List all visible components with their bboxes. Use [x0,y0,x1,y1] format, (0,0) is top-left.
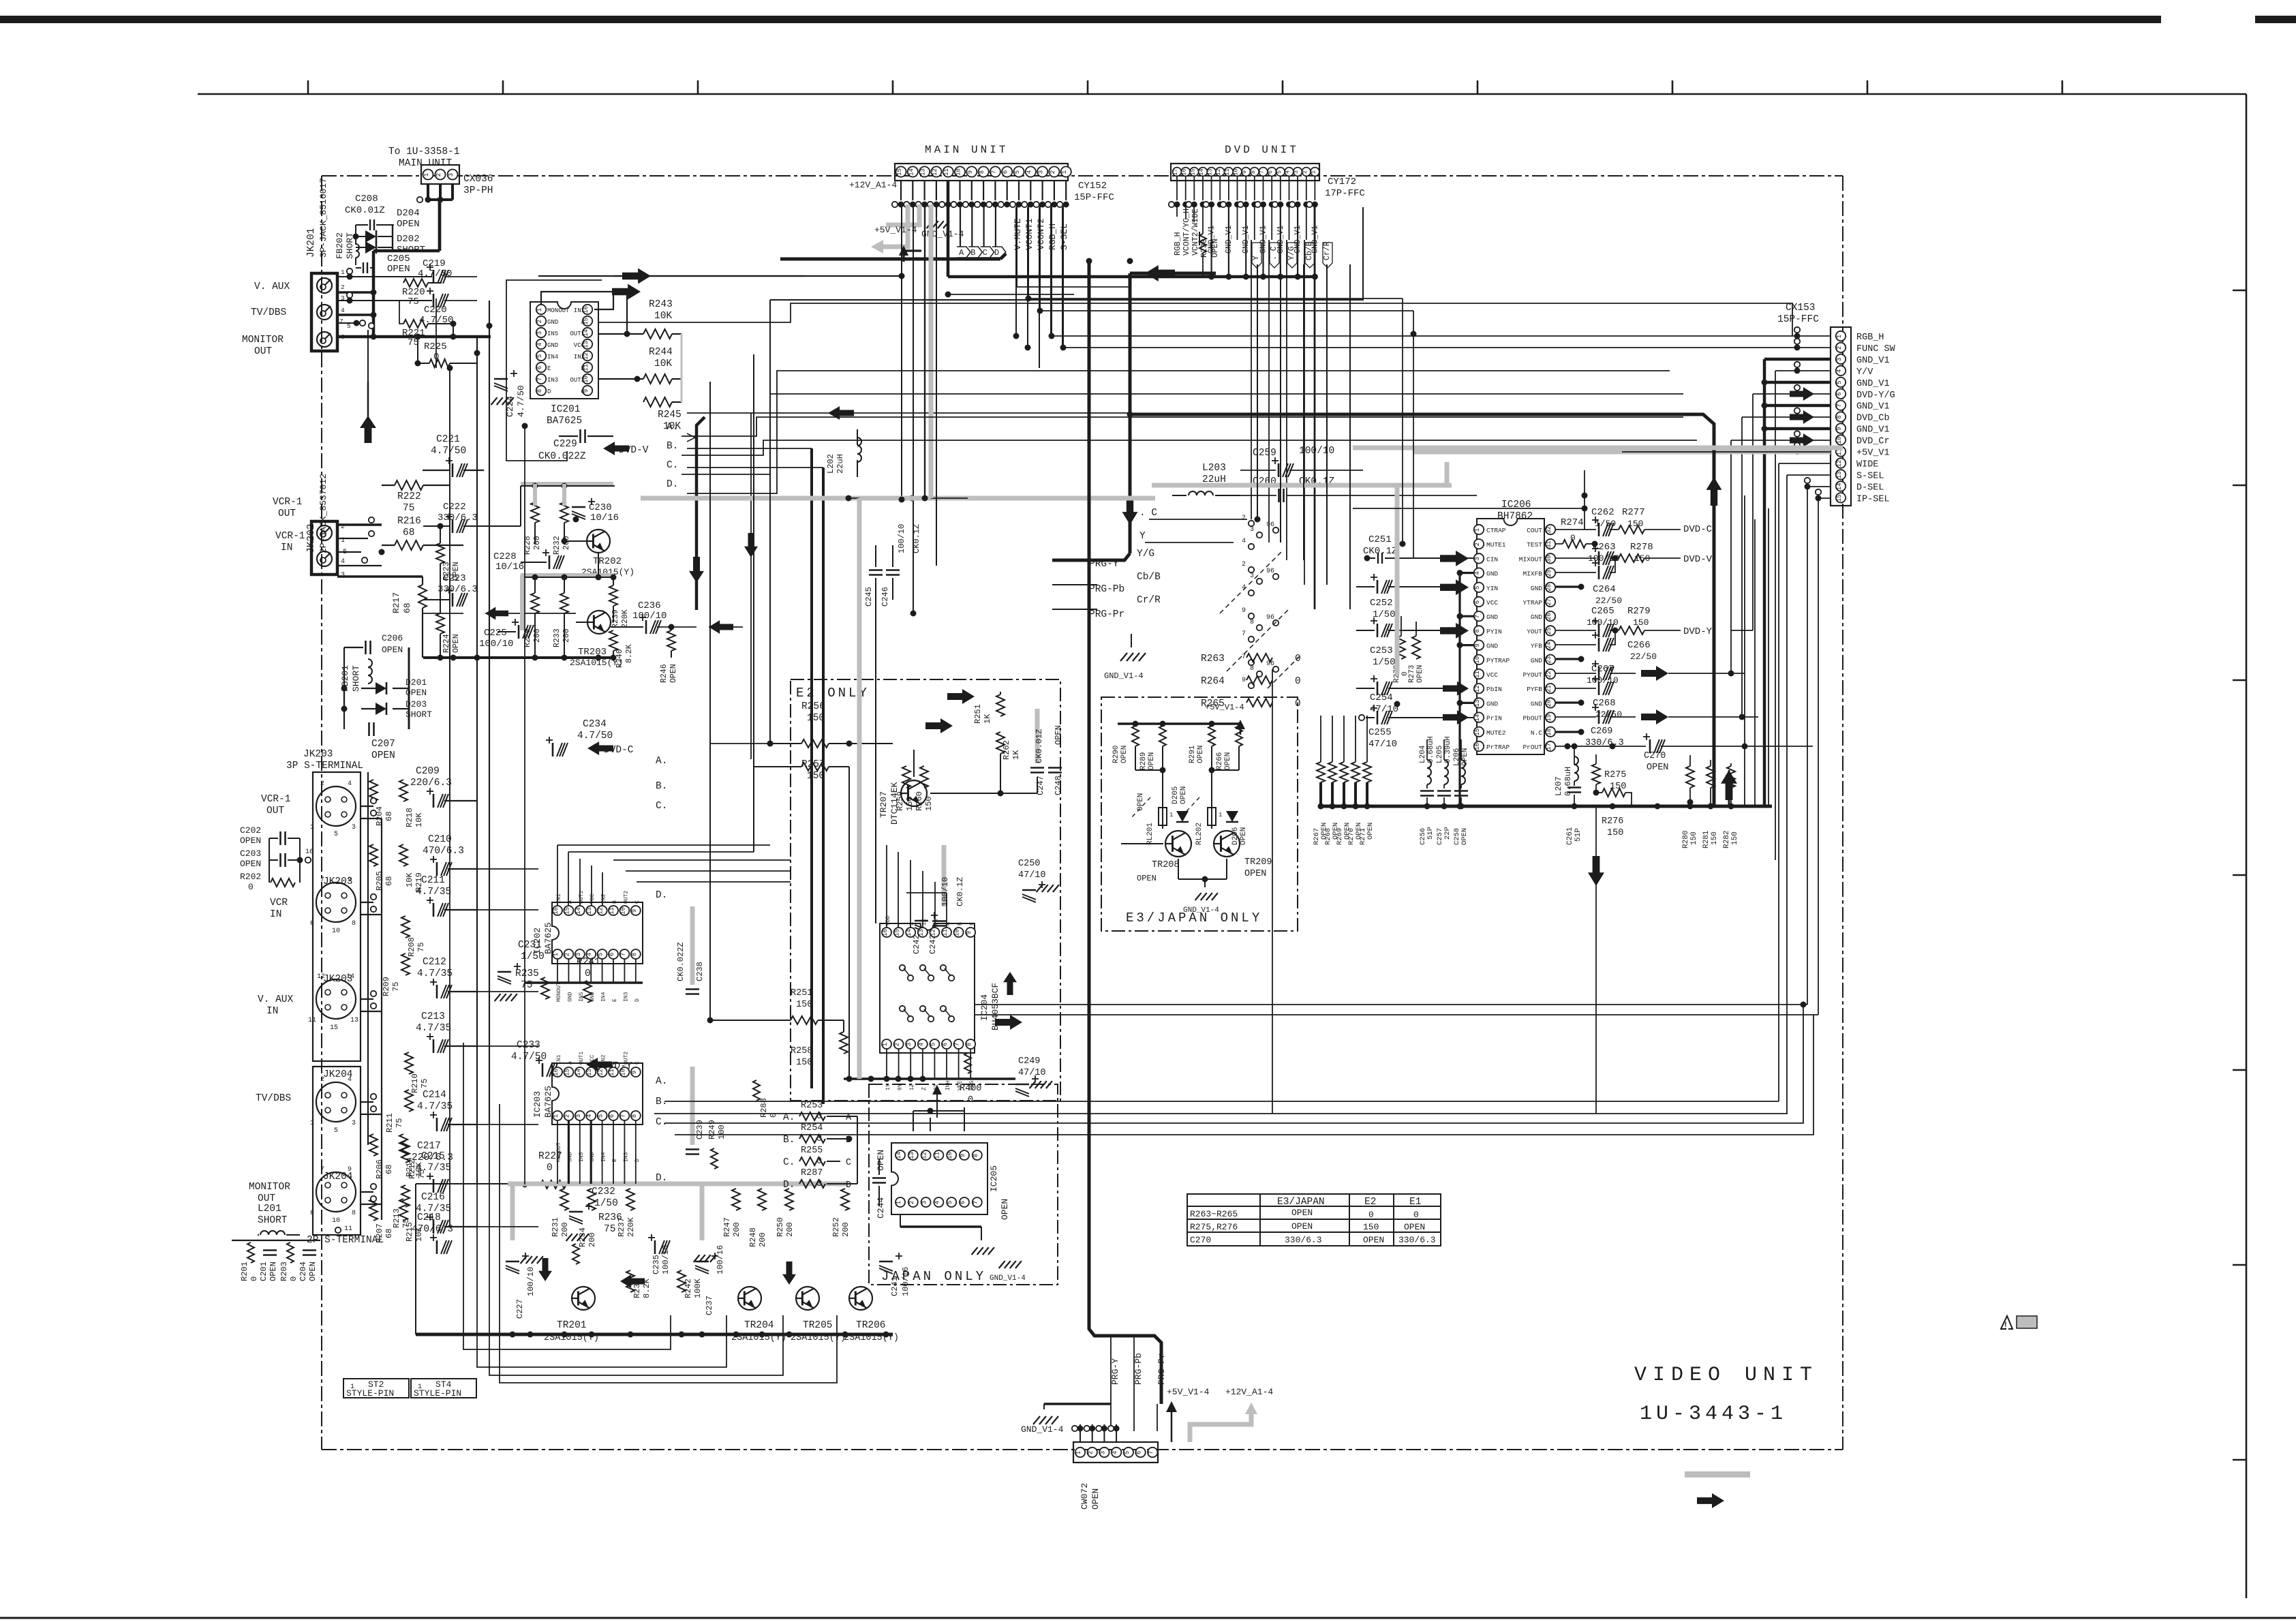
svg-text:100K: 100K [693,1278,703,1298]
svg-text:5: 5 [1124,1451,1131,1454]
capacitor C241 100/16 [879,1261,893,1263]
svg-text:15: 15 [330,1024,338,1032]
svg-text:L207: L207 [1554,776,1563,796]
svg-text:12: 12 [1474,685,1481,692]
svg-text:75: 75 [408,296,419,307]
svg-text:WIDE: WIDE [1856,460,1878,470]
svg-text:COUT: COUT [1527,527,1542,534]
gray trace L203 to IC206 [1152,483,1452,488]
svg-text:+5V_V1-4: +5V_V1-4 [1205,703,1244,712]
svg-text:4: 4 [536,343,543,346]
svg-text:OPEN: OPEN [1054,725,1063,745]
svg-text:IN1: IN1 [556,1054,562,1065]
wire IC202 feeds [444,800,557,801]
svg-text:R275: R275 [1604,770,1626,780]
transistor TR205 2SA1015(Y) [796,1287,819,1310]
svg-text:3: 3 [352,824,356,831]
svg-text:9: 9 [967,170,974,174]
svg-text:10/16: 10/16 [495,562,524,572]
svg-text:TV/DBS: TV/DBS [256,1093,291,1104]
op-amp IC202 BA7625 body [552,902,643,964]
relay RL202 OPEN [1208,808,1216,825]
resistor R233 200 [560,593,568,613]
svg-text:B.: B. [667,441,678,452]
svg-text:L201: L201 [258,1204,281,1214]
wire FUNC SW long horizontal [1065,347,1831,348]
svg-text:GND: GND [1486,700,1498,707]
svg-text:C216: C216 [421,1192,445,1203]
top black bar right segment [2255,16,2296,23]
svg-text:DVD-C: DVD-C [1683,524,1712,535]
svg-text:VCR-1: VCR-1 [273,497,303,508]
svg-text:TEST: TEST [1527,541,1542,549]
wire WIDE pin12 [1779,463,1831,464]
switch dashed arrows [1220,552,1281,613]
gray arrow +12V bottom [1190,1409,1251,1442]
svg-text:200: 200 [732,1222,741,1237]
svg-text:C261: C261 [1566,827,1574,845]
IC202 bottom pins [553,949,562,959]
wire E2 horizontals to right [710,743,770,744]
svg-text:1: 1 [423,173,430,177]
svg-text:R213: R213 [392,1208,401,1228]
gray +12V trace arrow [882,204,908,247]
warning gray box [2017,1316,2037,1328]
jack VCR-1 IN [317,551,332,566]
svg-text:VCC: VCC [590,1054,596,1065]
svg-text:E: E [547,365,551,372]
svg-text:C251: C251 [1368,534,1392,545]
svg-text:C202: C202 [240,825,261,836]
svg-text:200: 200 [785,1222,795,1237]
svg-text:150: 150 [905,796,915,811]
wire R221 to bus [453,324,454,337]
IC206 left pins [1474,525,1484,534]
capacitor PbOUT ecap arrow [1598,710,1600,724]
svg-text:8.2K: 8.2K [642,1278,652,1298]
svg-text:C242: C242 [912,934,921,954]
wire nested horizontals to right [664,498,1799,1123]
transistor TR208 [1165,831,1191,857]
svg-text:100/10: 100/10 [479,639,513,649]
svg-text:100/10: 100/10 [1587,675,1619,686]
svg-text:13: 13 [918,929,925,936]
svg-text:R277: R277 [1622,507,1645,518]
svg-text:R201: R201 [240,1261,249,1281]
svg-text:R281: R281 [1702,830,1711,848]
svg-text:7: 7 [339,318,343,325]
svg-text:A.: A. [667,422,678,433]
svg-text:N.C: N.C [1531,729,1542,737]
svg-text:2: 2 [1836,346,1843,350]
svg-text:13: 13 [1207,168,1214,175]
svg-text:11: 11 [609,1069,615,1076]
svg-text:OUT1: OUT1 [570,331,585,337]
svg-text:+12V_A1-4: +12V_A1-4 [849,180,897,190]
svg-text:8: 8 [1250,170,1257,174]
svg-text:R234: R234 [578,1227,587,1247]
svg-text:8: 8 [352,920,356,928]
connector ST2 STYLE-PIN [343,1379,409,1398]
svg-text:8: 8 [979,170,985,174]
svg-text:100/10: 100/10 [897,524,906,553]
svg-text:B: B [581,365,585,372]
IC204 bottom pins [882,1039,891,1049]
svg-text:11: 11 [1224,168,1231,175]
svg-text:2: 2 [320,780,324,788]
svg-text:2: 2 [536,320,543,323]
wire CX036 stems [427,184,429,200]
svg-text:Z: Z [921,1087,928,1090]
svg-text:C.: C. [783,1157,795,1168]
wire center verticals bundle [769,300,771,744]
svg-text:R217: R217 [391,592,401,613]
transistor TR202 2SA1015(Y) [587,530,610,553]
svg-text:16: 16 [1474,743,1481,750]
svg-text:68: 68 [384,1165,394,1174]
svg-text:10K: 10K [414,1162,424,1177]
thick bus A-D flags [780,258,1000,261]
svg-text:2: 2 [1242,561,1246,568]
svg-text:11: 11 [609,907,615,915]
svg-text:C206: C206 [382,633,403,643]
svg-text:TR205: TR205 [803,1320,833,1331]
svg-text:R255: R255 [801,1146,823,1156]
svg-text:1: 1 [341,269,345,276]
ground CY152 pin12 [936,204,937,217]
svg-text:B.: B. [656,1097,667,1107]
wire PrOUT net C270 OPEN [1556,746,1646,747]
svg-text:3: 3 [1038,170,1045,174]
svg-text:SHORT: SHORT [345,232,355,259]
svg-text:C204: C204 [299,1261,308,1281]
svg-text:16: 16 [553,907,560,915]
wire E2 box verticals [906,746,907,767]
capacitor C261 51P [1567,786,1581,789]
wire vertical 1867 [1272,669,1273,1114]
relay RL201 [1159,808,1167,825]
svg-text:30: 30 [1546,555,1552,562]
svg-text:R203: R203 [279,1261,289,1281]
svg-text:PbIN: PbIN [1486,686,1502,693]
svg-text:IN4: IN4 [601,992,607,1002]
svg-text:4: 4 [1285,170,1291,174]
svg-text:1: 1 [882,1043,889,1046]
svg-text:R263~R265: R263~R265 [1190,1209,1238,1219]
wire CY172 signal drops long [1187,207,1189,336]
connector CX153 15P-FFC [1831,327,1851,506]
svg-text:Cr/R: Cr/R [1323,241,1332,260]
svg-text:GND_V1-4: GND_V1-4 [1104,671,1144,681]
wire CY152 signal drops [1016,204,1017,287]
schematic dash-dot border left [321,176,322,1450]
svg-text:OPEN: OPEN [1197,746,1205,763]
svg-text:VIDEO UNIT: VIDEO UNIT [1634,1364,1818,1387]
svg-text:13: 13 [350,1017,358,1024]
svg-text:R211: R211 [385,1113,395,1133]
connector JK204 box [313,1067,361,1235]
wire IC201 outputs down-left [524,426,525,1184]
svg-text:VCC: VCC [1486,671,1498,679]
wire TR cluster rail2 [521,573,613,577]
wire DIN stub circles [371,798,376,804]
svg-text:D.: D. [667,479,678,490]
svg-text:11: 11 [943,168,950,176]
svg-text:GND: GND [1531,700,1542,707]
svg-text:16: 16 [305,848,313,856]
svg-text:R279: R279 [1627,606,1651,617]
svg-text:R400: R400 [960,1084,981,1094]
svg-text:R216: R216 [397,516,421,527]
svg-text:VCC: VCC [1486,599,1498,607]
svg-text:VCR-1: VCR-1 [275,531,305,542]
svg-text:DVD UNIT: DVD UNIT [1225,144,1299,156]
svg-text:470/6.3: 470/6.3 [412,1224,453,1235]
svg-text:OPEN: OPEN [1137,874,1157,883]
svg-text:R256: R256 [801,701,825,712]
connector CY152 15P-FFC [895,164,1068,181]
svg-text:12: 12 [932,168,938,176]
arrows E2 left [925,718,953,733]
transistor TR209 OPEN [1214,831,1240,857]
svg-text:A.: A. [656,1076,667,1087]
svg-text:0: 0 [1295,654,1301,664]
svg-text:96: 96 [1266,521,1274,529]
svg-text:1K: 1K [1011,750,1021,760]
svg-text:4: 4 [1242,538,1246,545]
capacitor C220 4.7/50 [433,294,435,307]
svg-text:1/50: 1/50 [1373,609,1396,620]
svg-text:9: 9 [348,1166,352,1174]
svg-text:0: 0 [547,1163,553,1174]
svg-text:DVD-V: DVD-V [1683,554,1713,565]
svg-text:OPEN: OPEN [1120,746,1129,763]
svg-text:10: 10 [1474,656,1481,664]
svg-text:100/10: 100/10 [526,1267,536,1296]
svg-text:3: 3 [536,331,543,335]
svg-text:+5V_V1: +5V_V1 [1856,448,1890,459]
svg-text:R282: R282 [1723,831,1731,848]
svg-text:OUT2: OUT2 [570,377,585,384]
svg-text:9: 9 [1474,643,1481,647]
svg-text:CK0.01Z: CK0.01Z [1035,729,1044,763]
svg-text:D.: D. [656,890,667,901]
svg-text:C213: C213 [421,1011,445,1022]
svg-text:C214: C214 [423,1090,446,1101]
svg-text:C: C [983,248,988,258]
svg-text:GND: GND [1486,643,1498,650]
svg-text:22/50: 22/50 [1630,652,1657,662]
svg-text:C.: C. [656,1117,667,1128]
wire TR cluster rail1 [521,482,613,486]
svg-text:15: 15 [1836,494,1843,502]
svg-text:R209: R209 [382,977,391,996]
svg-text:22uH: 22uH [836,454,845,474]
wire GND_V1 pin3 [1764,358,1831,361]
svg-text:A: A [581,319,585,326]
svg-text:INH: INH [945,1080,951,1090]
wire E3 top rail [1118,722,1240,725]
wire thick drop x1020 [697,417,705,610]
ruler ticks [307,80,309,94]
svg-text:GND: GND [547,319,558,326]
wire DVD-Y/G pin6 with arrow [1753,393,1831,395]
svg-text:47/10: 47/10 [1018,1068,1046,1078]
resistors R280 R281 R282 150 [1686,766,1694,788]
svg-text:VCR: VCR [270,898,288,908]
node flags A B C D under CY152 [960,204,961,247]
wire CY172 pin1 RGB_H drop [770,207,1363,300]
resistor R252 200 [841,1189,849,1210]
svg-text:C236: C236 [638,600,661,611]
svg-text:C229: C229 [553,439,577,450]
svg-text:V.MUTE: V.MUTE [1013,218,1023,250]
svg-text:A.: A. [656,756,667,767]
svg-text:5: 5 [1276,170,1283,174]
svg-text:PYFB: PYFB [1527,686,1542,693]
svg-text:OPEN: OPEN [1647,763,1668,773]
svg-text:R250: R250 [776,1217,785,1237]
svg-text:7: 7 [619,953,626,956]
svg-text:OUT: OUT [254,346,272,357]
svg-text:1: 1 [896,1201,902,1204]
wire CY152 pin drops [901,207,902,500]
svg-text:16: 16 [882,929,889,936]
svg-text:2: 2 [1474,542,1481,546]
wire RGB_H long horizontal [1053,335,1831,337]
svg-text:PRG-Pb: PRG-Pb [1133,1353,1144,1385]
svg-text:C207: C207 [371,739,395,750]
svg-text:B: B [958,922,964,925]
svg-text:C269: C269 [1591,726,1612,737]
ground GND_V1-4 japan box [999,1261,1005,1268]
svg-text:GND_V1-4: GND_V1-4 [1183,906,1219,915]
svg-text:5: 5 [334,1127,338,1135]
IC205 top pins [896,1150,905,1160]
svg-text:220/6.3: 220/6.3 [412,1152,453,1163]
svg-text:13: 13 [1836,471,1843,478]
wire GND chain thick vertical [1763,359,1766,806]
svg-text:11: 11 [344,1225,352,1233]
svg-text:15: 15 [564,907,570,915]
wire IC202 bottom pin drops [557,959,558,983]
svg-text:OPEN: OPEN [452,634,461,653]
inductor L201 [260,1231,285,1235]
svg-text:13: 13 [586,907,593,915]
svg-text:16: 16 [553,1069,560,1076]
svg-text:R230: R230 [1200,239,1209,258]
svg-text:CTRAP: CTRAP [1486,527,1506,534]
svg-text:0: 0 [968,1095,973,1105]
wire DIN to IC202 bundle [361,806,373,807]
svg-text:CK0.022Z: CK0.022Z [538,451,586,462]
svg-text:200: 200 [841,1222,851,1237]
wire IC202 bottom rail [525,981,643,984]
svg-text:24: 24 [1546,642,1552,649]
svg-text:150: 150 [1607,828,1623,838]
gray TR cluster verticals [533,484,537,506]
jack MONITOR OUT [317,332,332,347]
svg-text:0X: 0X [933,919,939,925]
svg-text:C208: C208 [355,194,378,204]
svg-text:3: 3 [1293,170,1300,174]
wire TR cluster bottom rail [423,656,615,659]
svg-text:C250: C250 [1018,859,1040,869]
svg-text:23: 23 [1546,656,1552,664]
wire thick B C bus pair [810,448,813,1088]
svg-text:4: 4 [1112,1451,1118,1454]
svg-text:0: 0 [249,1276,259,1281]
svg-text:GND_V1: GND_V1 [1856,379,1890,389]
svg-text:R252: R252 [831,1217,841,1237]
svg-text:9: 9 [1242,607,1246,615]
wire jack column verticals [476,337,478,1184]
svg-text:MIXFB: MIXFB [1522,570,1542,578]
svg-text:1/50: 1/50 [1373,657,1396,668]
wire IC202 pins up [557,915,558,949]
svg-text:68: 68 [403,527,414,538]
svg-text:D: D [994,248,999,258]
arrow up right of IC206 [1721,770,1737,800]
svg-text:12: 12 [598,907,604,915]
gray pin14 trace [886,204,919,225]
capacitor C256 51P [1420,790,1434,792]
CY172 pin stubs [1176,177,1178,200]
svg-text:R258: R258 [791,1046,812,1056]
gray revision bar [1685,1471,1750,1478]
svg-text:RGB_H: RGB_H [1856,333,1884,343]
resistor R206 68 [369,1134,378,1156]
svg-text:4: 4 [341,558,345,566]
svg-text:GND: GND [1531,613,1542,621]
gray pin13 trace [929,204,934,498]
svg-text:C212: C212 [423,957,446,968]
svg-text:CK0.1Z: CK0.1Z [1363,546,1397,557]
diode D206 OPEN [1226,811,1238,822]
wire GND bus from CY152 pin11 [947,181,950,277]
op-amp IC204 BU4053BCF body [880,923,975,1053]
svg-text:MONITOR: MONITOR [249,1182,290,1193]
svg-text:R231: R231 [551,1217,560,1237]
svg-text:4.7/50: 4.7/50 [431,446,466,457]
wire NC18 stub [1556,731,1581,733]
wire GND20 stub [1556,701,1581,703]
wire thick bottom rail [416,1333,893,1336]
svg-text:OPEN: OPEN [1240,827,1248,845]
svg-text:R273: R273 [1408,665,1416,683]
resistor R229 200 [531,593,539,613]
wire R243-R245 link [672,333,682,335]
svg-text:6: 6 [1267,170,1274,174]
svg-text:13: 13 [920,168,927,176]
jack V.AUX [317,278,332,293]
svg-text:2: 2 [1302,170,1308,174]
wire thick trunk to DVD_Cb bus [1127,412,1133,418]
svg-text:0: 0 [248,882,254,892]
wire DIN bus verticals [305,838,306,1118]
wire GND_V1 pin9 [1764,427,1831,431]
IC201 left pins [536,305,546,314]
svg-text:CW072: CW072 [1080,1483,1090,1510]
svg-text:IC203: IC203 [532,1091,542,1118]
schematic dash-dot border bottom [322,1449,1843,1450]
svg-text:R260: R260 [915,791,924,811]
transistor TR201 2SA1015(Y) [572,1287,595,1310]
svg-text:OUT: OUT [266,806,284,816]
svg-text:PRG-Pr: PRG-Pr [1157,1353,1167,1385]
svg-text:1: 1 [1169,812,1173,818]
svg-text:150: 150 [1633,617,1649,628]
